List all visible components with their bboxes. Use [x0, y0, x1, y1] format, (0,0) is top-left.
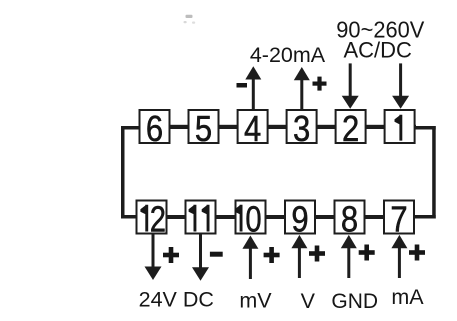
plus sign terminal 8 [359, 245, 375, 261]
terminal 1 [385, 110, 415, 143]
terminal 3 [287, 109, 317, 150]
wire arrow up into terminal 9 [291, 235, 307, 278]
wire arrow up from terminal 4 [245, 66, 261, 110]
terminal 7 [384, 199, 414, 240]
svg-text:4-20mA: 4-20mA [250, 43, 326, 67]
svg-text:0: 0 [245, 199, 261, 240]
svg-text:6: 6 [146, 109, 163, 150]
svg-text:mV: mV [239, 289, 272, 313]
plus sign terminal 10 [264, 247, 280, 263]
svg-text:7: 7 [390, 199, 407, 240]
minus sign terminal 4 [237, 83, 248, 88]
svg-text:GND: GND [331, 290, 378, 313]
wire outer top-right horizontal [415, 126, 436, 130]
svg-text:24V DC: 24V DC [139, 288, 214, 312]
wire arrow up into terminal 7 [391, 235, 407, 278]
wire arrow down into terminal 2 [342, 63, 359, 108]
svg-text:mA: mA [391, 285, 424, 309]
svg-text:5: 5 [195, 109, 212, 150]
svg-text:3: 3 [293, 109, 310, 150]
wire arrow down from terminal 12 [145, 234, 162, 280]
wire top row bus [139, 125, 416, 129]
terminal 9 [285, 199, 315, 240]
svg-text:AC/DC: AC/DC [343, 38, 412, 63]
smudge mark top [184, 15, 196, 24]
svg-text:8: 8 [341, 199, 358, 240]
terminal 2 [336, 109, 366, 150]
plus sign terminal 3 [313, 77, 327, 91]
terminal 5 [189, 109, 219, 150]
terminal 10 [235, 199, 266, 240]
terminal 11 [186, 201, 216, 234]
svg-text:4: 4 [244, 109, 261, 150]
svg-text:2: 2 [342, 109, 359, 150]
wire arrow up into terminal 8 [341, 235, 357, 278]
wire outer right vertical [432, 126, 436, 219]
wire outer top-left horizontal [121, 126, 141, 130]
wire outer left vertical [121, 126, 125, 219]
wire arrow down into terminal 1 [392, 63, 409, 108]
svg-text:9: 9 [291, 199, 308, 240]
svg-text:V: V [301, 289, 316, 313]
wire outer bottom-left horizontal [121, 215, 137, 219]
wire outer bottom-right horizontal [414, 215, 436, 219]
wire arrow up into terminal 10 [242, 236, 258, 280]
terminal 12 [137, 199, 167, 240]
terminal 4 [238, 109, 268, 150]
plus sign terminal 9 [309, 246, 325, 262]
wire arrow down from terminal 11 [192, 234, 209, 281]
terminal 6 [140, 109, 170, 150]
wire arrow up from terminal 3 [294, 67, 310, 110]
wire bottom row bus [136, 215, 415, 219]
plus sign terminal 12 [163, 247, 179, 263]
minus sign terminal 11 [210, 252, 223, 257]
plus sign terminal 7 [409, 245, 425, 261]
terminal 8 [335, 199, 365, 240]
